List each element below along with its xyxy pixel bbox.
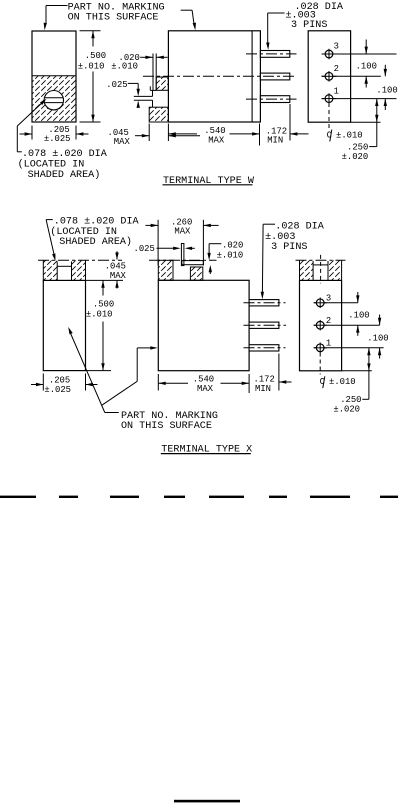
bottom page border tick	[174, 800, 240, 803]
note: PART NO. MARKING ON THIS SURFACE (top)	[68, 2, 165, 24]
svg-text:3: 3	[334, 41, 339, 52]
fold separator dashed line	[0, 496, 398, 498]
dimension .540 MAX (X)	[158, 374, 249, 395]
mounting plane phantom line (Type X)	[38, 259, 217, 261]
dimension .205 +/-.025 (body width, X)	[31, 374, 98, 395]
dimension .100 (terminals 3-2, X)	[348, 292, 369, 336]
svg-text:.100: .100	[356, 61, 377, 72]
note .078 +/-.020 DIA (LOCATED IN SHADED AREA) with leader to screw	[17, 99, 107, 181]
svg-text:.100: .100	[367, 332, 388, 343]
end view body (Type W)	[308, 31, 350, 122]
svg-text:3: 3	[326, 293, 331, 304]
centerline below terminal 1 (X)	[319, 353, 321, 375]
terminal pins (middle view, type W)	[260, 51, 289, 103]
wiper tab up (middle view X)	[181, 244, 184, 266]
terminal line row 1	[322, 98, 397, 100]
svg-text:MAX: MAX	[110, 270, 126, 281]
hatched lug right (middle view X)	[190, 267, 202, 280]
pin centerline top (pin 3 row)	[246, 53, 297, 55]
terminal line row 2 (X)	[314, 324, 380, 326]
svg-text:±.025: ±.025	[44, 384, 71, 395]
note .028 DIA +/-.003 3 PINS (top) with leader to pin	[266, 1, 344, 50]
wiper tab (middle view left)	[134, 90, 153, 107]
svg-text:±.020: ±.020	[333, 404, 360, 415]
centerline tolerance symbol +/-.010 (X)	[320, 376, 356, 388]
cover plate edge-on (left of middle view)	[153, 54, 156, 91]
dimension .205 +/-.025 (left view width)	[20, 124, 89, 144]
mounting face extension line (end view X)	[342, 370, 372, 372]
leader to left view top surface	[44, 6, 68, 31]
dimension .025 (tab thickness, X)	[134, 243, 195, 254]
terminal line row 3	[322, 53, 397, 55]
svg-text:1: 1	[334, 85, 340, 96]
svg-text:MAX: MAX	[197, 383, 213, 394]
terminal line row 3 (X)	[314, 302, 358, 304]
svg-text:ON THIS SURFACE: ON THIS SURFACE	[121, 420, 212, 432]
dimension .500 +/-.010 (left view height)	[78, 31, 106, 122]
svg-text:SHADED AREA): SHADED AREA)	[28, 169, 101, 181]
mounting face extension line (end view W)	[351, 121, 381, 123]
dimension .045 MAX (lug standoff)	[108, 124, 201, 148]
dimension .250 +/-.020 (X)	[333, 348, 370, 415]
svg-text:3 PINS: 3 PINS	[271, 241, 307, 253]
svg-text:±.010: ±.010	[111, 61, 138, 72]
svg-text:MAX: MAX	[114, 136, 130, 147]
svg-text:±.010: ±.010	[217, 250, 244, 261]
shaded (hatched) area of left view	[32, 76, 76, 122]
dimension .250 +/-.020 (terminal 1 to face, W)	[342, 99, 379, 163]
svg-text:±.010: ±.010	[329, 376, 356, 387]
svg-text:±.010: ±.010	[78, 60, 105, 71]
leader to middle view surface (X)	[102, 346, 158, 405]
adjustment screw in shaded area	[44, 91, 63, 110]
note .028 DIA +/-.003 3 PINS (X) with leader	[261, 221, 325, 300]
hatched lug lower (middle view left)	[149, 107, 168, 122]
terminal 2 symbol (end view W)	[322, 63, 339, 82]
shaded strip right part (end view X)	[328, 260, 342, 280]
terminal 2 symbol (end view X)	[314, 315, 331, 330]
svg-text:2: 2	[334, 63, 339, 74]
screw slot bottom (left view X)	[57, 265, 71, 267]
svg-text:MAX: MAX	[208, 134, 224, 145]
dimension .100 (terminals 2-1, W)	[376, 65, 397, 110]
svg-text:1: 1	[326, 338, 332, 349]
terminal 1 symbol (end view X)	[314, 338, 332, 353]
shaded strip left part (end view X)	[300, 260, 314, 280]
shaded strip left part (left view X)	[43, 260, 57, 280]
centerline below terminal 1 (end view W)	[328, 103, 330, 129]
svg-text:.100: .100	[348, 309, 369, 320]
svg-text:.100: .100	[376, 84, 397, 95]
middle view body (Type W)	[168, 31, 260, 122]
leader to left view surface (X)	[68, 327, 119, 413]
cover plate edge-on (middle view X)	[182, 261, 203, 265]
note .078 +/-.020 DIA (LOCATED IN SHADED AREA) X, leader down	[46, 216, 139, 261]
screw centerline (end view X)	[320, 255, 322, 284]
terminal 3 symbol (end view W)	[322, 41, 339, 60]
dimension .172 MIN (X)	[254, 354, 292, 395]
terminal line row 1 (X)	[314, 347, 384, 349]
dimension .172 MIN (pin length)	[266, 104, 309, 145]
svg-text:±.010: ±.010	[86, 309, 113, 320]
svg-text:SHADED AREA): SHADED AREA)	[59, 236, 132, 248]
svg-text:.025: .025	[106, 79, 127, 90]
svg-text:.025: .025	[134, 243, 155, 254]
left side view body (Type W)	[32, 31, 76, 122]
end view body (Type X)	[300, 280, 342, 370]
dimension .020 +/-.010 (cover plate thickness)	[111, 52, 167, 72]
title TERMINAL TYPE W	[163, 175, 255, 187]
pin centerline row 2 (X)	[244, 324, 287, 326]
pin centerline row 1 (X)	[244, 347, 286, 349]
pin centerline bottom (pin 1 row)	[246, 98, 297, 100]
dimension .260 MAX (X)	[146, 216, 219, 265]
dimension .540 MAX (middle view width)	[168, 124, 259, 146]
svg-text:2: 2	[326, 315, 331, 326]
terminal 1 symbol (end view W)	[322, 85, 340, 104]
pin centerline row 3 (X)	[244, 302, 286, 304]
hatched lug left (middle view X)	[158, 260, 173, 280]
svg-text:±.020: ±.020	[342, 151, 369, 162]
svg-text:MAX: MAX	[174, 225, 190, 236]
dimension .025 (wiper tab thickness)	[106, 79, 140, 108]
terminal pins (middle view, type X)	[249, 300, 279, 351]
hatched lug upper (middle view left)	[150, 77, 168, 90]
centerline through middle view and pin 2	[143, 75, 297, 77]
dimension .500 +/-.010 (body height, X)	[86, 280, 115, 370]
svg-text:±.025: ±.025	[44, 133, 71, 144]
shaded strip right part (left view X)	[72, 260, 86, 280]
terminal 3 symbol (end view X)	[314, 293, 331, 308]
leader to middle view top surface	[181, 10, 196, 30]
strip top phantom line (end view X)	[296, 259, 346, 261]
svg-text:±.010: ±.010	[336, 129, 363, 140]
note PART NO. MARKING ON THIS SURFACE (bottom)	[121, 410, 218, 432]
title TERMINAL TYPE X	[161, 444, 253, 456]
dimension .100 (terminals 3-2, W)	[356, 40, 377, 88]
centerline tolerance symbol +/-.010 (W)	[327, 129, 363, 141]
svg-text:ON THIS SURFACE: ON THIS SURFACE	[68, 12, 159, 24]
terminal line row 2	[322, 75, 381, 77]
screw slot bottom (end view X)	[313, 264, 328, 266]
svg-text:MIN: MIN	[255, 383, 271, 394]
middle view body (Type X)	[158, 280, 249, 370]
dimension .100 (terminals 2-1, X)	[367, 315, 388, 359]
svg-text:MIN: MIN	[267, 134, 283, 145]
dimension .045 MAX (strip height, X)	[86, 251, 127, 288]
svg-text:3 PINS: 3 PINS	[291, 19, 327, 31]
left side view body (Type X)	[43, 280, 85, 370]
dimension .020 +/-.010 (cover plate, X)	[207, 240, 243, 274]
